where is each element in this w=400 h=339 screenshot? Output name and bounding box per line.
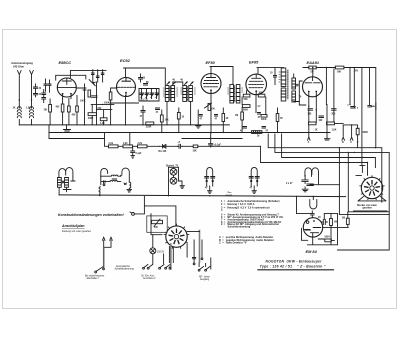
svg-text:EF80: EF80 xyxy=(206,60,216,65)
EC92 grid resistor xyxy=(109,92,112,100)
wire H2 xyxy=(275,134,389,250)
EAA91 verticals xyxy=(309,68,334,139)
coil L2 xyxy=(30,100,34,125)
svg-text:Fassung von unten gesehen: Fassung von unten gesehen xyxy=(62,230,92,233)
B+ rail xyxy=(303,68,375,77)
switch contacts bottom mid xyxy=(144,265,170,268)
svg-text:E88CC: E88CC xyxy=(59,60,72,65)
svg-text:300K: 300K xyxy=(261,119,267,121)
junction dots antenna xyxy=(19,99,20,100)
E88CC top wires xyxy=(56,70,106,80)
svg-text:abschalten !: abschalten ! xyxy=(87,277,100,280)
svg-text:220R: 220R xyxy=(146,127,152,129)
wire H4 xyxy=(261,162,368,175)
NF contacts xyxy=(200,267,211,270)
spring top xyxy=(101,175,121,176)
cap 300 xyxy=(332,109,337,111)
cap small left xyxy=(104,181,106,183)
switch 1 cable xyxy=(103,247,105,266)
svg-text:300K: 300K xyxy=(243,110,249,112)
resistor 1M xyxy=(309,66,316,69)
svg-text:2,2k: 2,2k xyxy=(109,143,114,145)
caps 30 stack xyxy=(42,90,46,103)
tube EF85 xyxy=(246,74,267,95)
resistor row 2,2k xyxy=(105,133,160,146)
svg-text:Anschluss 2: Anschluss 2 xyxy=(143,277,156,280)
right rails xyxy=(350,68,376,166)
EAA91 left branch xyxy=(296,81,306,105)
svg-text:EF85: EF85 xyxy=(249,60,259,65)
bus y138.5 xyxy=(49,138,105,140)
svg-text:10K: 10K xyxy=(165,120,170,122)
caps mid column xyxy=(92,96,98,98)
svg-text:1K: 1K xyxy=(315,130,318,132)
svg-text:NF- beste: NF- beste xyxy=(199,276,210,279)
tuning cap bank xyxy=(139,89,159,102)
trimmer cluster xyxy=(83,80,95,98)
terminal circle left xyxy=(132,213,135,216)
svg-text:2 x 47: 2 x 47 xyxy=(286,182,293,185)
svg-text:gesehen: gesehen xyxy=(363,208,373,210)
wires under EC92 xyxy=(126,96,191,125)
right coil spring xyxy=(129,182,131,189)
cap 47 mid xyxy=(141,106,145,125)
svg-text:1M: 1M xyxy=(342,217,345,219)
svg-text:Stecker von unten: Stecker von unten xyxy=(357,204,378,207)
antenna terminal left xyxy=(18,71,22,101)
2x47 arches xyxy=(305,168,319,177)
tube EAA91 xyxy=(303,77,323,97)
socket Fassung xyxy=(166,226,187,247)
resistor 1,5K xyxy=(327,122,335,125)
svg-text:3 = Heizung/2 6,3 V 2,0 A: 3 = Heizung/2 6,3 V 2,0 A symmetrisch xyxy=(221,207,270,210)
wires column xyxy=(91,104,114,125)
svg-text:Anschlußplan: Anschlußplan xyxy=(61,224,84,228)
series cap 0,1uF xyxy=(209,133,261,147)
svg-text:300K: 300K xyxy=(363,132,369,134)
cap 0,1uF to ground xyxy=(131,147,135,158)
diode BA130 xyxy=(160,145,179,149)
wire to EC92 grid xyxy=(77,82,97,125)
cap 100 xyxy=(308,109,313,111)
lamp bottom left xyxy=(150,248,156,254)
junction dots bus/rails xyxy=(99,195,100,196)
antenna terminal right xyxy=(30,71,34,101)
switch 1 terminal forks xyxy=(102,237,112,247)
svg-text:240 Ohm: 240 Ohm xyxy=(12,65,25,69)
resistor 7K EF85 xyxy=(276,114,279,122)
svg-text:Konstruktionsänderungen vorbeh: Konstruktionsänderungen vorbehalten! xyxy=(58,213,125,217)
svg-text:EM 84: EM 84 xyxy=(306,249,318,254)
resistor 10K row xyxy=(193,145,198,148)
wires under E88CC xyxy=(63,96,77,126)
caps 47 on bus xyxy=(243,127,247,129)
resistor R cathode 1 xyxy=(61,104,64,112)
svg-text:≈0,1µF: ≈0,1µF xyxy=(214,143,222,146)
resistor 1W left xyxy=(49,105,52,113)
cap 47b xyxy=(156,108,160,110)
arrow C xyxy=(350,125,353,140)
bus y132.5 xyxy=(49,132,330,134)
cap right 7 xyxy=(348,105,355,108)
svg-text:910101: 910101 xyxy=(226,195,234,197)
svg-text:Type : 126 42 / 51 " Z - Ba: Type : 126 42 / 51 " Z - Baustein " xyxy=(260,265,326,269)
EM84 cap xyxy=(311,211,315,217)
ground EF80 xyxy=(196,126,202,129)
resistor 1M right2 xyxy=(346,218,349,224)
bus y124.9 xyxy=(19,124,229,126)
svg-text:Bei niederfrequenz: Bei niederfrequenz xyxy=(85,275,105,278)
tube EF80 xyxy=(201,74,221,94)
caps 47 EF85 xyxy=(258,113,261,115)
svg-text:Scharfabstimmung: Scharfabstimmung xyxy=(228,226,251,229)
svg-text:2,2k: 2,2k xyxy=(123,143,128,145)
arrow A xyxy=(308,137,311,140)
tube E88CC xyxy=(57,78,76,97)
svg-text:2,2k: 2,2k xyxy=(138,143,143,145)
tertiary coil lower xyxy=(292,91,296,102)
EF85 plate rail xyxy=(257,68,275,74)
socket bottom wires xyxy=(169,240,202,263)
svg-text:NOGOTON UKW - Einbausuper: NOGOTON UKW - Einbausuper xyxy=(266,259,323,263)
svg-text:EAA91: EAA91 xyxy=(307,60,320,65)
svg-text:2 = Heizung f 6,3 V 0,95: 2 = Heizung f 6,3 V 0,95 A xyxy=(221,203,255,206)
IF transformer T2 xyxy=(181,82,196,102)
svg-text:50K: 50K xyxy=(244,99,249,101)
svg-text:EC92: EC92 xyxy=(120,58,131,63)
ground under E88CC xyxy=(64,125,71,132)
svg-text:1M: 1M xyxy=(334,222,337,224)
arrow B xyxy=(342,125,345,140)
hairpin choke 1 xyxy=(207,168,213,187)
svg-text:0,1µF: 0,1µF xyxy=(136,153,143,155)
ground mid xyxy=(324,139,330,140)
resistor 1,2K xyxy=(100,118,107,121)
resistor under 500V xyxy=(325,239,332,242)
svg-text:C = Ratio Detektor "0": C = Ratio Detektor "0" xyxy=(219,241,248,244)
resistor R cathode 3 xyxy=(76,106,79,112)
EF80 plate rail xyxy=(210,67,233,85)
resistor 10K xyxy=(160,115,163,122)
stecker label xyxy=(357,204,378,210)
coil assembly A xyxy=(59,168,73,177)
wires EF85 xyxy=(242,90,277,132)
bus y196 main xyxy=(59,195,346,197)
numbered list xyxy=(219,200,283,244)
svg-text:10K: 10K xyxy=(193,150,198,152)
wire AVC y138.5 xyxy=(182,138,242,140)
T cap left of stecker xyxy=(356,165,365,175)
svg-text:100K: 100K xyxy=(80,101,86,103)
svg-text:BA 130: BA 130 xyxy=(159,150,167,153)
svg-text:1K: 1K xyxy=(13,108,16,110)
resistor 400R xyxy=(88,113,96,116)
svg-text:1M: 1M xyxy=(310,71,313,73)
ratio transformer lower xyxy=(281,88,286,101)
EM84 U loop xyxy=(310,200,317,209)
svg-text:1,5K: 1,5K xyxy=(332,130,337,132)
svg-text:500V: 500V xyxy=(325,237,331,239)
cap 68 xyxy=(144,84,148,86)
svg-text:400R: 400R xyxy=(88,117,94,120)
switch labels xyxy=(85,265,210,281)
wire corner to right xyxy=(261,146,368,162)
svg-text:50K: 50K xyxy=(337,71,342,73)
svg-text:Antenneneingang: Antenneneingang xyxy=(10,61,33,65)
coupling caps xyxy=(34,84,38,97)
svg-text:10/15V: 10/15V xyxy=(157,252,165,254)
E88CC grid caps xyxy=(44,79,51,92)
resistor 100 xyxy=(177,113,180,120)
resistor 1M right xyxy=(330,219,333,226)
screen network boxes xyxy=(243,94,250,97)
cap 100b xyxy=(319,116,324,118)
svg-text:7K: 7K xyxy=(280,118,283,120)
EM84 right cap xyxy=(321,219,327,224)
coil L1 xyxy=(17,100,21,125)
EF80 screen trimmer xyxy=(205,103,212,108)
tube EM84 xyxy=(303,218,322,237)
choke Dr xyxy=(251,131,262,134)
resistor 1K EF80 xyxy=(222,114,225,122)
cap 10 xyxy=(139,74,143,82)
svg-text:Automatische: Automatische xyxy=(116,265,131,268)
pot box xyxy=(147,216,167,232)
wire H3 xyxy=(282,134,376,168)
svg-text:Ausgang: Ausgang xyxy=(200,278,210,281)
EC92 plate rail xyxy=(124,68,166,85)
resistor 50K xyxy=(335,66,344,69)
cap right plate xyxy=(368,103,376,110)
winding marks T1 xyxy=(163,88,178,96)
resistor 1M EF85 xyxy=(241,112,244,120)
resistor 220R horizontal xyxy=(146,122,154,125)
verticals to bottom right bus xyxy=(339,148,348,215)
svg-text:1M: 1M xyxy=(235,115,238,117)
caps 47 EF80 xyxy=(199,115,202,117)
riser left xyxy=(48,125,50,139)
coil assembly B xyxy=(101,168,108,176)
junction dots buses xyxy=(66,124,67,125)
svg-text:Scharfabstimmung: Scharfabstimmung xyxy=(115,268,135,271)
small caps on wires xyxy=(193,258,196,259)
wire H1 xyxy=(268,134,382,202)
svg-text:1,5K: 1,5K xyxy=(26,108,31,110)
resistor R cathode 2 xyxy=(68,106,71,112)
grey cable xyxy=(199,231,201,263)
lower left coil xyxy=(99,186,101,192)
ratio transformer upper xyxy=(281,68,286,87)
resistor 1K xyxy=(309,122,317,125)
resistor 300K xyxy=(356,128,359,135)
svg-text:Dr: Dr xyxy=(257,136,260,138)
spring bottom xyxy=(102,180,121,181)
EM84 wires xyxy=(297,212,349,245)
tertiary coil upper xyxy=(292,78,296,89)
IF transformer T1 xyxy=(165,82,183,102)
svg-text:9 5 7 8: 9 5 7 8 xyxy=(141,99,149,101)
switch 1 contact xyxy=(96,267,103,272)
svg-text:Ch Ein- Aus-: Ch Ein- Aus- xyxy=(141,275,155,278)
svg-text:1K: 1K xyxy=(226,118,229,120)
socket Stecker xyxy=(361,177,382,198)
IF transformer T3 xyxy=(228,85,243,104)
neutralization caps above xyxy=(92,70,104,82)
tube EC92 xyxy=(117,78,136,97)
hairpin choke 2 xyxy=(251,167,257,186)
cap 47 row xyxy=(178,144,183,148)
title xyxy=(260,259,326,268)
arch right xyxy=(121,168,130,182)
